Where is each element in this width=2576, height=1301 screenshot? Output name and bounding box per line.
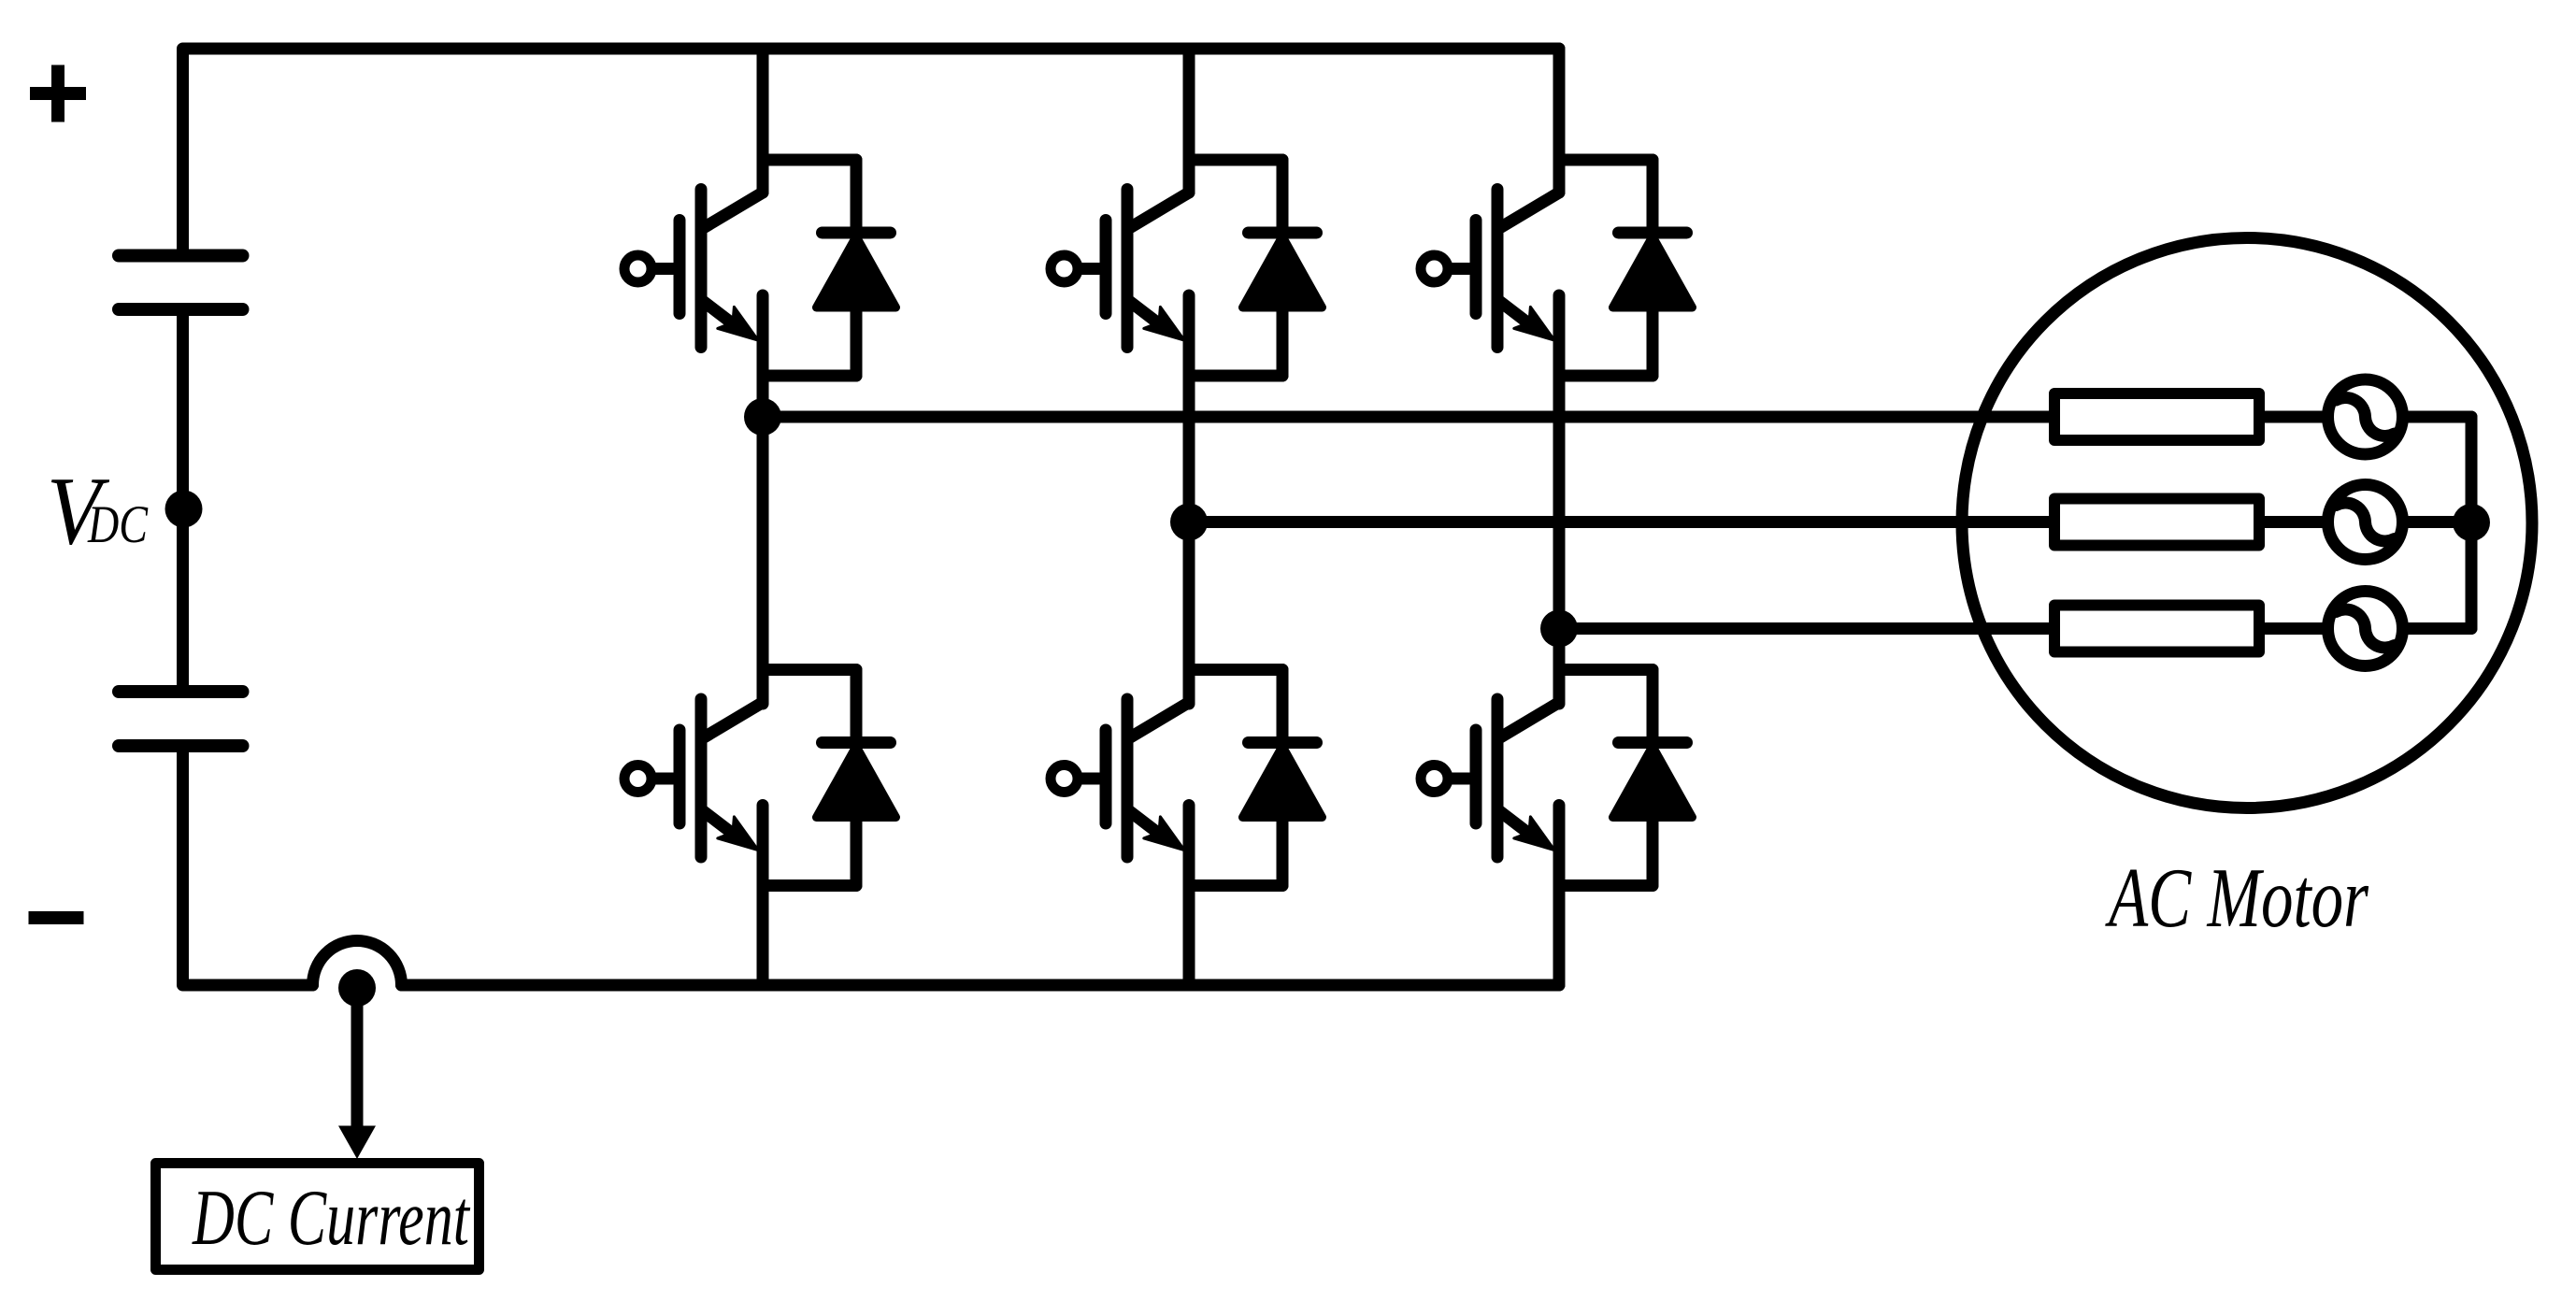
capacitor C2 (lower DC-link)	[119, 692, 243, 746]
wire: Q3 collector stub to diode D3	[1559, 154, 1653, 166]
wire: leg A upper collector lead	[757, 49, 769, 193]
svg-text:DC Current: DC Current	[192, 1174, 470, 1262]
wire: AC source B to neutral bus	[2403, 516, 2472, 528]
wire: diode D2 branch	[1277, 160, 1289, 376]
wire: phase C line to motor	[1559, 622, 2049, 635]
wire: AC source C to neutral bus	[2403, 622, 2472, 635]
svg-text:DC: DC	[87, 495, 149, 554]
node VDC midpoint dot	[165, 491, 203, 528]
diode D3	[1613, 233, 1693, 307]
wire: diode D3 branch	[1647, 160, 1659, 376]
diode D2	[1243, 233, 1323, 307]
capacitor C1 (upper DC-link)	[119, 256, 243, 310]
minus terminal label	[29, 911, 84, 924]
wire: Q6 emitter stub to diode D6	[1559, 879, 1653, 892]
wire: C1 to VDC node to C2	[177, 310, 189, 693]
current sensor loop on negative rail	[313, 941, 402, 986]
plus terminal label	[30, 65, 86, 122]
wire: Q2 emitter stub to diode D2	[1189, 370, 1282, 382]
winding resistance phase C	[2054, 606, 2259, 652]
wire: diode D5 branch	[1277, 670, 1289, 886]
svg-text:AC Motor: AC Motor	[2105, 851, 2368, 945]
wire: Q4 emitter stub to diode D4	[763, 879, 856, 892]
transistor Q4 (IGBT)	[624, 699, 763, 857]
diode D5	[1243, 743, 1323, 818]
wire: Q5 collector stub to diode D5	[1189, 664, 1282, 676]
wire: leg C upper collector lead	[1553, 49, 1566, 193]
diode D4	[817, 743, 896, 818]
node: current sensor tap dot	[338, 969, 376, 1007]
AC source (back-EMF) phase A	[2328, 379, 2403, 454]
wire: C2 to negative rail corner	[183, 747, 313, 986]
wire: Q3 emitter stub to diode D3	[1559, 370, 1653, 382]
winding resistance phase A	[2054, 393, 2259, 440]
wire: leg B lower emitter lead	[1183, 806, 1195, 986]
transistor Q3 (IGBT)	[1421, 190, 1559, 348]
winding resistance phase B	[2054, 499, 2259, 546]
wire: winding C to AC source	[2265, 622, 2328, 635]
wire: negative DC rail	[402, 979, 1560, 992]
wire: AC source A to neutral bus	[2403, 411, 2472, 423]
transistor Q1 (IGBT)	[624, 190, 763, 348]
AC motor body circle	[1962, 238, 2532, 808]
wire: positive DC rail	[183, 49, 1560, 255]
AC source (back-EMF) phase C	[2328, 592, 2403, 666]
wire: leg B upper collector lead	[1183, 49, 1195, 193]
wire: diode D6 branch	[1647, 670, 1659, 886]
node: motor neutral junction dot	[2453, 504, 2490, 541]
wire: leg A midpoint (phase A riser)	[757, 295, 769, 704]
DC Current block box	[156, 1164, 479, 1270]
diode D6	[1613, 743, 1693, 818]
wire: phase B line to motor	[1189, 516, 2049, 528]
wire: leg A lower emitter lead	[757, 806, 769, 986]
wire: leg C midpoint (phase C riser)	[1553, 295, 1566, 704]
wire: Q2 collector stub to diode D2	[1189, 154, 1282, 166]
diode D1	[817, 233, 896, 307]
wire: leg B midpoint (phase B riser)	[1183, 295, 1195, 704]
wire: leg C lower emitter lead	[1553, 806, 1566, 986]
arrow: sensed current to DC Current block	[338, 993, 376, 1159]
AC source (back-EMF) phase B	[2328, 485, 2403, 560]
wire: diode D1 branch	[851, 160, 863, 376]
wire: Q5 emitter stub to diode D5	[1189, 879, 1282, 892]
wire: Q1 collector stub to diode D1	[763, 154, 856, 166]
wire: Q1 emitter stub to diode D1	[763, 370, 856, 382]
transistor Q5 (IGBT)	[1051, 699, 1189, 857]
wire: motor neutral bus	[2466, 417, 2478, 629]
node: phase A junction dot	[744, 398, 781, 436]
node: phase C junction dot	[1540, 610, 1578, 648]
wire: Q6 collector stub to diode D6	[1559, 664, 1653, 676]
transistor Q2 (IGBT)	[1051, 190, 1189, 348]
wire: phase A line to motor	[763, 411, 2049, 423]
node: phase B junction dot	[1170, 504, 1208, 541]
wire: diode D4 branch	[851, 670, 863, 886]
wire: winding B to AC source	[2265, 516, 2328, 528]
transistor Q6 (IGBT)	[1421, 699, 1559, 857]
wire: winding A to AC source	[2265, 411, 2328, 423]
wire: Q4 collector stub to diode D4	[763, 664, 856, 676]
